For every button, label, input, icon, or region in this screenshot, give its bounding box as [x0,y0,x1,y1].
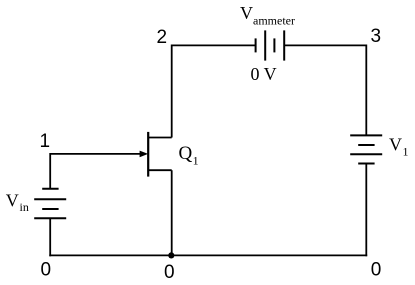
svg-text:Q: Q [179,143,193,164]
svg-text:2: 2 [157,27,168,48]
svg-text:V: V [6,191,19,211]
wire: left rail from battery Vin bottom plate down to bottom-left corner [49,218,51,256]
transistor Q1 channel bar [147,132,149,177]
svg-text:0: 0 [41,260,52,281]
wire: right rail from battery V1 bottom plate down to bottom-right corner [365,164,367,257]
svg-text:3: 3 [371,26,382,47]
wire: source vertical down to bottom rail junction [171,170,173,255]
wire: drain vertical up to node 2 corner [171,45,173,138]
battery Vin, plates top to bottom: short, long, short, long [34,189,66,219]
svg-text:1: 1 [40,131,51,152]
transistor Q1 source lead horizontal [148,169,172,171]
wire: right rail from node 3 corner down to battery V1 top plate [365,45,367,136]
gate arrowhead pointing into channel of Q1 [140,151,149,158]
svg-text:ammeter: ammeter [253,14,295,28]
battery V1, plates top to bottom: long, short, long, short [350,135,382,163]
transistor Q1 drain lead horizontal [148,137,172,139]
svg-text:V: V [240,3,253,23]
battery V_ammeter (0 V source), plates left to right: short, tall, short, tall [256,30,285,60]
wire: bottom ground rail from bottom-left corner to bottom-right corner [49,254,367,256]
svg-text:V: V [389,135,402,155]
wire: gate lead from node 1 corner to transistor Q1 gate [50,153,142,155]
svg-text:1: 1 [403,144,409,158]
junction dot at node 0 under source [168,252,174,258]
wire: node 2 top rail, drain corner to ammeter battery left terminal [172,44,256,46]
svg-text:0: 0 [164,262,175,283]
svg-text:in: in [20,200,29,214]
svg-text:0 V: 0 V [251,64,277,84]
svg-text:1: 1 [193,154,199,168]
wire: node 3 top rail, ammeter battery right terminal to top-right corner [284,44,366,46]
wire: left rail from node 1 corner down to battery Vin top plate [49,153,51,189]
svg-text:0: 0 [371,259,382,280]
